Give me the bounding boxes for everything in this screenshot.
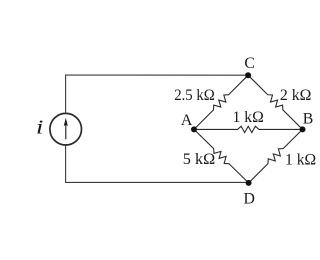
- svg-text:1 kΩ: 1 kΩ: [233, 109, 264, 126]
- label i: [36, 116, 44, 138]
- wire: top loop from source to node C: [66, 75, 249, 113]
- resistor 1k zigzag A-B: [194, 126, 303, 132]
- wire: bottom loop from source to node D: [66, 145, 249, 182]
- svg-text:C: C: [244, 55, 255, 72]
- svg-text:2 kΩ: 2 kΩ: [280, 87, 312, 104]
- resistor 2.5k zigzag A-C: [194, 75, 248, 129]
- svg-text:5 kΩ: 5 kΩ: [183, 151, 215, 168]
- svg-text:B: B: [303, 110, 314, 127]
- node dot D: [246, 180, 252, 186]
- svg-text:1 kΩ: 1 kΩ: [285, 152, 316, 169]
- resistor 5k zigzag A-D: [194, 129, 249, 183]
- current source arrow head: [64, 118, 68, 126]
- current source circle: [50, 113, 82, 145]
- node dot B: [300, 126, 306, 132]
- resistor 1k zigzag D-B: [249, 129, 303, 183]
- svg-text:2.5 kΩ: 2.5 kΩ: [174, 87, 215, 104]
- resistor 2k zigzag C-B: [248, 75, 302, 129]
- svg-text:i: i: [36, 116, 44, 138]
- node dot C: [245, 72, 251, 78]
- current source arrow shaft: [65, 125, 67, 140]
- svg-text:D: D: [244, 190, 255, 207]
- node dot A: [191, 126, 197, 132]
- svg-text:A: A: [181, 111, 193, 129]
